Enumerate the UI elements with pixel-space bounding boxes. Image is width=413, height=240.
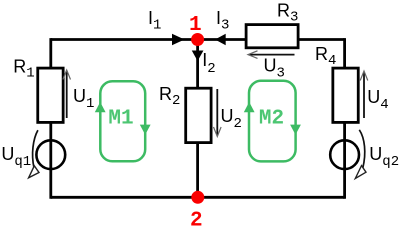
wire middle vertical — [196, 40, 199, 198]
wire top-right segment — [198, 38, 345, 41]
resistor R1 — [13, 57, 63, 123]
resistor R2 — [159, 84, 211, 143]
current arrow I3 — [215, 8, 229, 45]
wire right vertical — [343, 38, 346, 199]
wire top-left segment — [51, 38, 198, 41]
resistor R4 — [315, 44, 358, 122]
mesh loop M2 — [244, 81, 301, 162]
wire left vertical — [49, 38, 52, 199]
current arrow I1 — [148, 8, 185, 45]
voltage source Uq2 — [330, 130, 399, 179]
voltage arrow U2 — [214, 89, 242, 137]
svg-text:1: 1 — [189, 14, 202, 37]
voltage arrow U4 — [360, 71, 389, 118]
svg-text:M1: M1 — [108, 108, 133, 131]
node 2 — [190, 191, 204, 233]
voltage arrow U1 — [63, 70, 95, 118]
wire bottom segment — [51, 196, 345, 199]
current arrow I2 — [192, 50, 216, 77]
svg-text:2: 2 — [190, 210, 203, 231]
voltage source Uq1 — [1, 130, 65, 178]
resistor R3 — [246, 1, 298, 48]
voltage arrow U3 — [248, 51, 295, 82]
mesh loop M1 — [95, 81, 151, 161]
node 1 — [189, 14, 204, 46]
svg-text:M2: M2 — [259, 108, 284, 131]
